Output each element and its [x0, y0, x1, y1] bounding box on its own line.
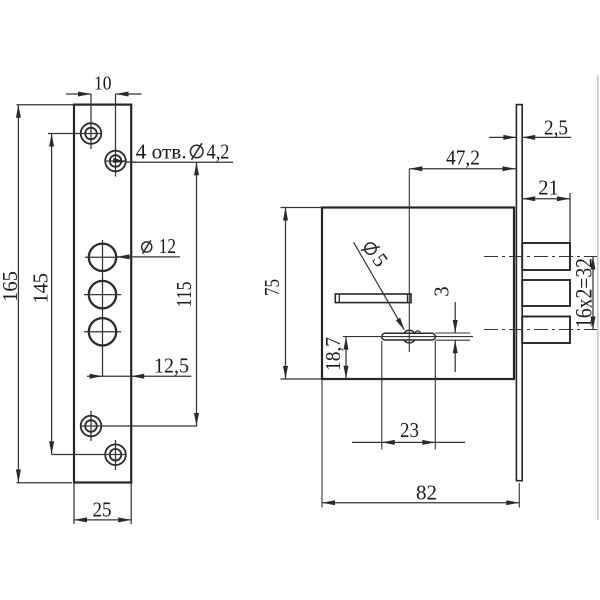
dimension 82 [322, 379, 519, 508]
dimension 12,5 [87, 353, 191, 378]
svg-text:12,5: 12,5 [154, 353, 189, 377]
svg-text:4,2: 4,2 [207, 140, 230, 164]
leader Ø5 to keyhole [354, 242, 405, 330]
svg-text:4 отв.: 4 отв. [136, 140, 187, 164]
dimension 2,5 [489, 116, 571, 140]
svg-text:165: 165 [0, 271, 22, 302]
keyhole vertical axis (47,2 extension) [408, 169, 410, 352]
bolt middle [522, 280, 570, 306]
big hole 3 (Ø12) [84, 318, 121, 345]
faceplate front view outline [74, 105, 131, 483]
svg-text:23: 23 [400, 418, 419, 442]
svg-text:145: 145 [28, 273, 52, 304]
svg-text:115: 115 [172, 282, 196, 308]
svg-text:2,5: 2,5 [544, 116, 568, 140]
svg-text:18,7: 18,7 [321, 337, 345, 371]
svg-text:10: 10 [94, 73, 112, 95]
bolt bottom [522, 317, 570, 344]
dimension 21 [522, 176, 570, 244]
svg-text:75: 75 [260, 279, 284, 296]
svg-text:25: 25 [93, 498, 112, 522]
big hole 1 (Ø12) [85, 244, 119, 271]
bolt top centerline [484, 256, 597, 258]
hole C leader to 115 line [81, 425, 198, 427]
svg-text:47,2: 47,2 [446, 146, 480, 170]
keyhole horizontal axis (18,7 extension) [343, 336, 473, 338]
svg-text:16x2=32: 16x2=32 [572, 258, 597, 328]
dimension 47,2 [409, 146, 515, 172]
screw hole D bottom-right [105, 440, 126, 470]
dimension 115 [172, 162, 199, 426]
dimension 25 (bottom) [74, 483, 131, 525]
dimension 16x2=32 [572, 257, 597, 330]
svg-text:21: 21 [538, 176, 559, 200]
leader 4 otv Ø4,2 [113, 140, 233, 164]
dimension 3 (keyhole height) [430, 286, 471, 372]
screw hole axis / extension line left (10 dim) [90, 94, 92, 149]
screw hole C lower-left [81, 411, 102, 441]
lock body outline [322, 208, 514, 380]
svg-text:12: 12 [159, 234, 176, 258]
dimension 23 [352, 341, 465, 450]
faceplate side view (2,5 thick) [516, 105, 522, 481]
dimension 165 (far left) [0, 105, 74, 483]
leader Ø12 [117, 234, 181, 259]
bolt bottom centerline [484, 329, 597, 331]
handle slot [335, 294, 411, 303]
dimension 18,7 [321, 337, 349, 379]
svg-text:3: 3 [430, 286, 454, 297]
dimension 145 [28, 134, 125, 455]
keyhole (Ø5 circle + slot) [382, 330, 436, 343]
photo edge line right [597, 75, 599, 520]
screw hole B upper-right [105, 151, 126, 172]
svg-text:82: 82 [416, 480, 437, 504]
screw hole A top-left [81, 123, 102, 144]
screw hole axis / extension line right (10 dim) [115, 94, 117, 177]
dimension 10 (top) [66, 73, 142, 97]
bolt top [522, 243, 570, 270]
big holes vertical axis [102, 240, 104, 376]
big hole 2 (Ø12) [84, 281, 121, 308]
dimension 75 [260, 208, 322, 380]
